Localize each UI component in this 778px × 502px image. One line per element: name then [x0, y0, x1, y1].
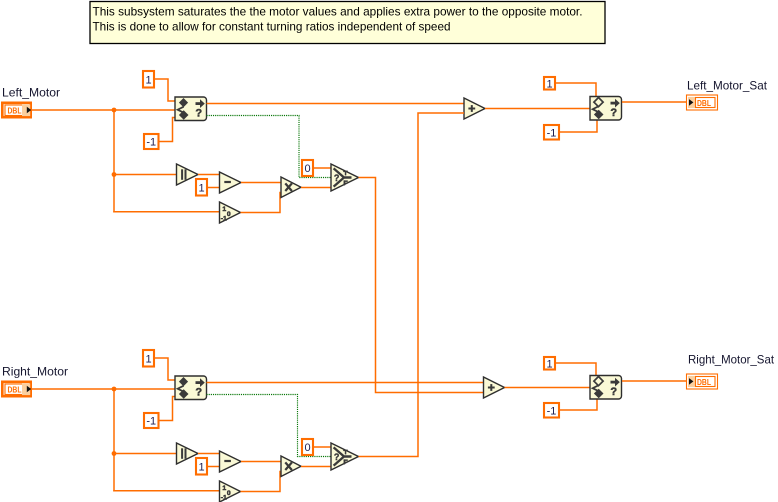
wire [114, 453, 177, 455]
svg-text:1: 1 [198, 461, 204, 473]
wire [32, 388, 176, 390]
svg-text:-1: -1 [547, 127, 557, 139]
wire cross to bottom adder [359, 178, 484, 393]
svg-text:-1: -1 [221, 495, 227, 502]
select function [331, 164, 359, 191]
add function [484, 377, 505, 398]
wire [241, 461, 281, 463]
subtract [220, 451, 242, 472]
sign function [220, 202, 241, 223]
constant -1 (lower limit) [544, 403, 559, 418]
svg-text:0: 0 [304, 442, 310, 454]
In Range and Coerce [175, 376, 207, 400]
wire [208, 466, 220, 468]
indicator terminal Right_Motor_Sat (DBL) [687, 374, 718, 389]
constant 1 (upper limit) [544, 77, 555, 90]
svg-text:?: ? [195, 108, 202, 120]
svg-text:?: ? [334, 452, 340, 462]
wire [301, 466, 331, 468]
node junction [112, 387, 117, 392]
svg-text:DBL: DBL [8, 107, 22, 116]
svg-text:-1: -1 [221, 216, 227, 223]
wire [155, 358, 175, 380]
svg-text:1: 1 [222, 206, 226, 213]
svg-text:1: 1 [546, 358, 552, 370]
sign function [220, 481, 241, 502]
wire [241, 193, 282, 213]
wire [560, 120, 597, 132]
svg-text:-1: -1 [547, 405, 557, 417]
constant -1 (lower limit) [544, 125, 559, 140]
svg-text:1: 1 [145, 74, 151, 86]
wire [485, 108, 590, 110]
multiply [281, 456, 301, 477]
svg-text:1: 1 [222, 485, 226, 492]
node junction [112, 451, 117, 456]
wire [160, 397, 176, 421]
svg-text:This is done to allow for cons: This is done to allow for constant turni… [93, 20, 451, 34]
In Range and Coerce [175, 97, 207, 121]
constant 1 (upper limit) [143, 71, 154, 88]
wire [314, 167, 331, 169]
svg-text:?: ? [334, 173, 340, 183]
wire [32, 109, 176, 111]
svg-text:?: ? [195, 387, 202, 399]
wire [207, 103, 465, 105]
absolute value [177, 164, 199, 185]
wire [505, 387, 591, 389]
wire [198, 453, 220, 455]
wire [556, 363, 596, 376]
constant 0 (true case) [302, 439, 313, 455]
svg-text:0: 0 [227, 211, 231, 218]
wire [241, 472, 282, 492]
label Right_Motor_Sat [688, 353, 775, 367]
wire [113, 389, 115, 492]
subtract [220, 172, 242, 193]
multiply [281, 177, 301, 198]
wire [113, 490, 220, 492]
wire [208, 187, 220, 189]
select function [331, 443, 359, 470]
wire [114, 174, 177, 176]
wire [560, 399, 597, 410]
wire [113, 110, 115, 213]
label Left_Motor_Sat [687, 79, 768, 93]
control terminal Right_Motor (DBL) [2, 382, 31, 396]
wire [155, 79, 175, 101]
svg-text:DBL: DBL [697, 99, 711, 108]
constant 1 (upper limit) [143, 350, 154, 367]
label Right_Motor [2, 365, 68, 379]
svg-text:0: 0 [227, 490, 231, 497]
wire [556, 83, 596, 97]
svg-text:1: 1 [546, 78, 552, 90]
svg-text:Right_Motor: Right_Motor [2, 365, 68, 379]
control terminal Left_Motor (DBL) [2, 103, 31, 117]
svg-text:-1: -1 [146, 416, 156, 428]
svg-text:Left_Motor_Sat: Left_Motor_Sat [687, 79, 768, 93]
comment box [90, 2, 605, 44]
indicator terminal Left_Motor_Sat (DBL) [687, 95, 718, 110]
wire [160, 118, 176, 142]
node junction [112, 108, 117, 113]
wire boolean (in range?) [207, 395, 332, 457]
In Range and Coerce (output saturation) [590, 376, 622, 400]
wire [113, 211, 220, 213]
wire [301, 187, 331, 189]
constant 1 (upper limit) [544, 357, 555, 370]
svg-text:This subsystem saturates the t: This subsystem saturates the the motor v… [93, 5, 583, 19]
constant 1 (subtrahend) [196, 179, 207, 196]
constant -1 (lower limit) [144, 134, 159, 149]
svg-text:Left_Motor: Left_Motor [2, 86, 60, 100]
svg-text:1: 1 [145, 353, 151, 365]
constant 0 (true case) [302, 160, 313, 176]
svg-text:Right_Motor_Sat: Right_Motor_Sat [688, 353, 775, 367]
wire cross to top adder [359, 113, 465, 457]
wire [622, 101, 687, 103]
svg-text:1: 1 [198, 182, 204, 194]
svg-text:?: ? [610, 107, 617, 119]
svg-text:DBL: DBL [8, 386, 22, 395]
svg-text:-1: -1 [146, 137, 156, 149]
wire boolean (in range?) [207, 116, 332, 178]
In Range and Coerce (output saturation) [590, 97, 622, 121]
node junction [112, 172, 117, 177]
wire [622, 380, 687, 382]
label Left_Motor [2, 86, 60, 100]
svg-text:?: ? [610, 386, 617, 398]
constant 1 (subtrahend) [196, 458, 207, 475]
wire [314, 446, 331, 448]
absolute value [177, 443, 199, 464]
wire [198, 174, 220, 176]
svg-text:DBL: DBL [697, 378, 711, 387]
constant -1 (lower limit) [144, 413, 159, 428]
wire [241, 182, 281, 184]
add function [464, 98, 485, 119]
svg-text:0: 0 [304, 163, 310, 175]
wire [207, 382, 484, 384]
